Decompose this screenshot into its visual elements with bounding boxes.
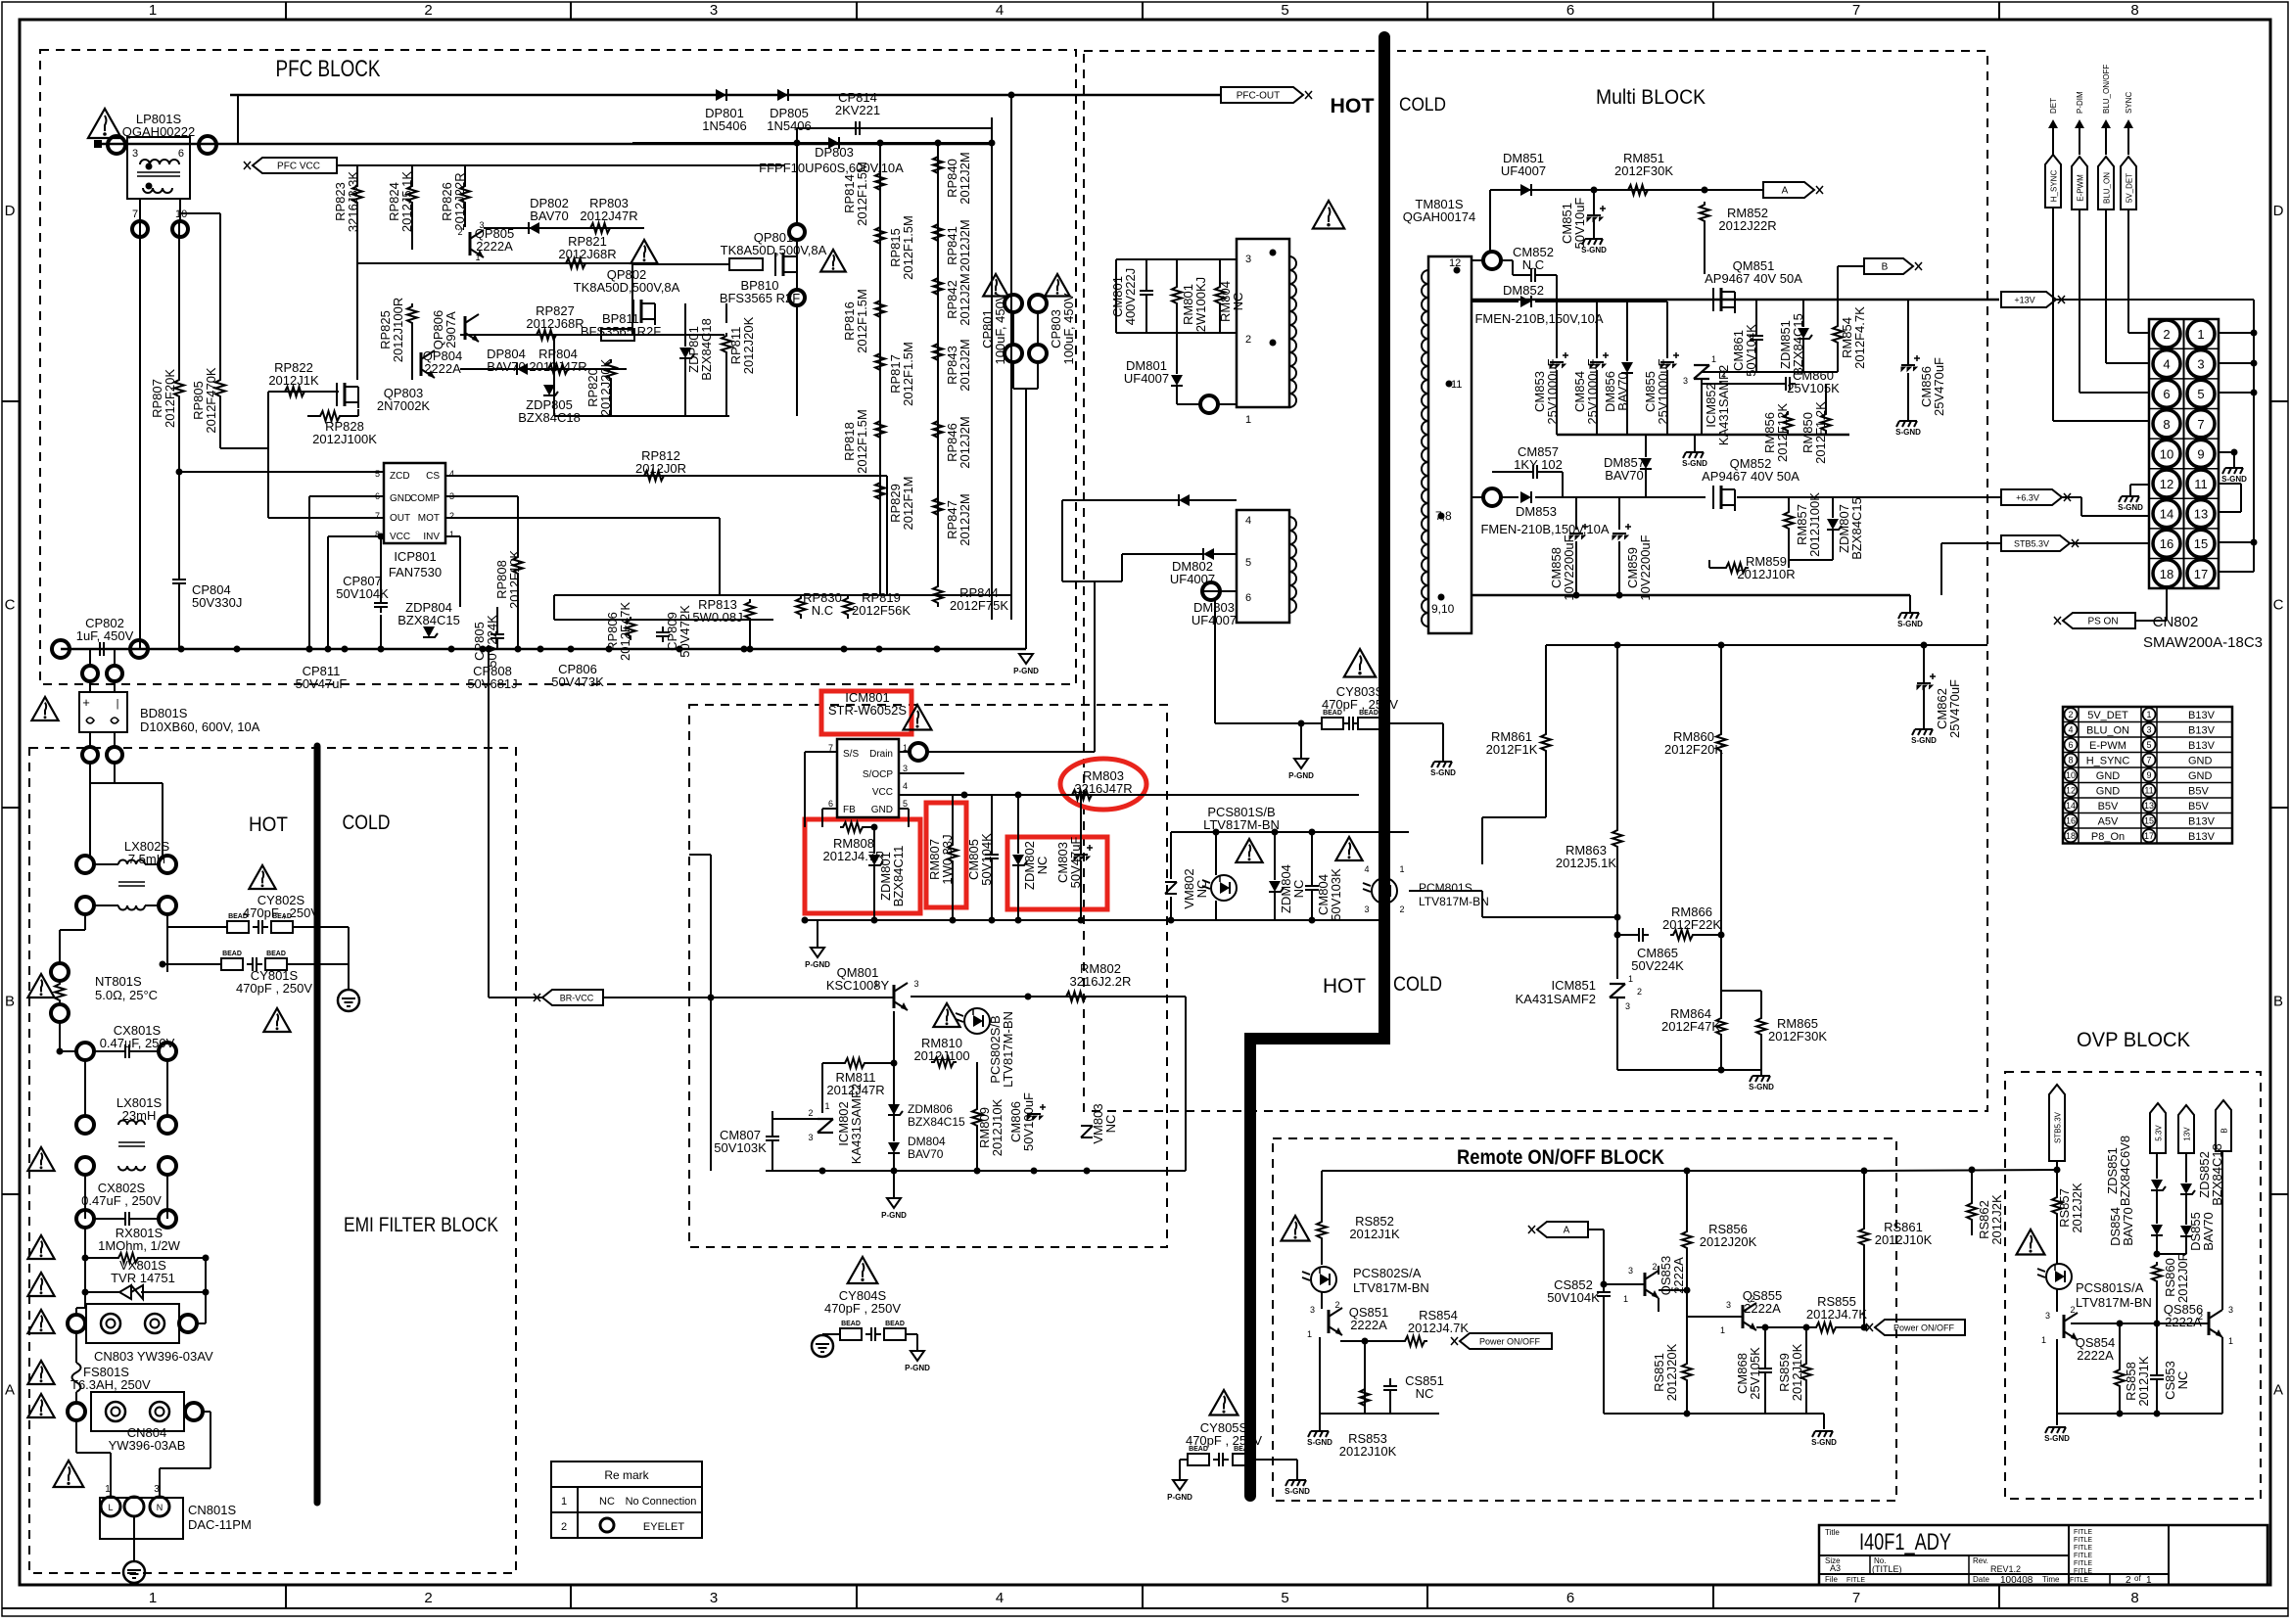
svg-text:COMP: COMP [410,493,440,504]
svg-text:BZX84C6V8: BZX84C6V8 [2118,1136,2132,1206]
svg-text:B13V: B13V [2188,710,2216,721]
svg-text:2012J100: 2012J100 [913,1048,969,1063]
svg-text:FITLE: FITLE [2074,1529,2092,1536]
svg-text:FFPF10UP60S,600V,10A: FFPF10UP60S,600V,10A [759,161,904,175]
svg-text:3: 3 [2197,357,2204,372]
svg-text:BZX84C15: BZX84C15 [397,613,460,627]
svg-text:8: 8 [2130,2,2138,19]
svg-text:4: 4 [903,781,908,791]
svg-text:1: 1 [149,2,157,19]
svg-text:4: 4 [996,2,1004,19]
svg-text:2012F1.5M: 2012F1.5M [901,215,915,280]
svg-text:100uF, 450V: 100uF, 450V [993,293,1007,364]
svg-text:2012J47R: 2012J47R [529,359,586,374]
svg-text:OVP BLOCK: OVP BLOCK [2077,1029,2190,1051]
svg-text:2: 2 [808,1108,813,1118]
svg-text:9: 9 [2146,770,2151,780]
svg-text:13: 13 [2194,507,2208,522]
svg-text:2012J10K: 2012J10K [1339,1444,1397,1459]
svg-text:BEAD: BEAD [1234,1446,1253,1453]
svg-text:YW396-03AB: YW396-03AB [109,1438,186,1453]
svg-text:S-GND: S-GND [2118,503,2143,512]
svg-text:ZDM806: ZDM806 [908,1102,953,1116]
svg-text:2012J10K: 2012J10K [990,1098,1005,1156]
svg-text:7: 7 [132,209,138,220]
svg-text:10: 10 [2066,770,2076,780]
svg-text:NC: NC [599,1496,615,1508]
svg-text:2222A: 2222A [476,239,513,254]
svg-text:7: 7 [2197,417,2204,432]
svg-text:Power ON/OFF: Power ON/OFF [1893,1323,1955,1333]
svg-text:REV1.2: REV1.2 [1990,1564,2021,1574]
svg-text:NC: NC [1291,880,1306,899]
svg-text:L: L [108,1503,113,1512]
svg-text:3: 3 [1364,905,1369,914]
svg-text:NC: NC [1035,857,1050,875]
svg-text:7: 7 [1852,1590,1860,1606]
svg-text:P-GND: P-GND [905,1364,930,1372]
svg-text:3: 3 [903,764,908,773]
svg-text:TVR 14751: TVR 14751 [111,1271,175,1285]
svg-text:2012J2K: 2012J2K [2070,1183,2084,1233]
svg-text:2012J10K: 2012J10K [1790,1343,1804,1401]
svg-text:LTV817M-BN: LTV817M-BN [1001,1011,1015,1088]
svg-text:LTV817M-BN: LTV817M-BN [1353,1280,1429,1295]
svg-text:FMEN-210B,150V,10A: FMEN-210B,150V,10A [1480,522,1609,536]
svg-text:100uF, 450V: 100uF, 450V [1061,293,1076,364]
svg-text:9: 9 [2197,446,2204,461]
svg-text:50V100uF: 50V100uF [1021,1092,1036,1151]
svg-text:PCS801S/A: PCS801S/A [2076,1280,2144,1295]
svg-text:13: 13 [2144,801,2154,811]
svg-text:BEAD: BEAD [841,1321,861,1327]
svg-text:9,10: 9,10 [1431,602,1455,616]
svg-text:E-PWM: E-PWM [2089,740,2126,752]
svg-text:3: 3 [1245,254,1251,265]
svg-text:FITLE: FITLE [2074,1545,2092,1552]
svg-text:CN801S: CN801S [188,1503,236,1517]
svg-text:LTV817M-BN: LTV817M-BN [2076,1295,2152,1310]
svg-text:3: 3 [710,2,718,19]
svg-text:3: 3 [1683,376,1688,386]
svg-text:P-DIM: P-DIM [2076,91,2084,114]
svg-text:CN803 YW396-03AV: CN803 YW396-03AV [94,1349,213,1364]
svg-text:2012J10K: 2012J10K [1875,1232,1933,1247]
svg-text:QGAH00222: QGAH00222 [122,124,195,139]
svg-text:6: 6 [2068,740,2073,750]
svg-text:2012J1K: 2012J1K [2136,1356,2151,1407]
svg-text:6: 6 [2163,387,2170,401]
svg-text:2012J47R: 2012J47R [580,209,637,223]
svg-text:C: C [5,597,16,614]
svg-text:B13V: B13V [2188,740,2216,752]
svg-text:5.0Ω, 25°C: 5.0Ω, 25°C [95,988,158,1002]
svg-text:8: 8 [2068,755,2073,765]
svg-text:S-GND: S-GND [1811,1438,1837,1447]
svg-text:B: B [2220,1128,2229,1133]
svg-text:5V_DET: 5V_DET [2126,173,2134,203]
svg-text:SMAW200A-18C3: SMAW200A-18C3 [2143,634,2263,651]
svg-text:10: 10 [2160,446,2173,461]
svg-text:14: 14 [2066,801,2076,811]
svg-text:4: 4 [2068,724,2073,734]
svg-text:P8_On: P8_On [2091,831,2125,843]
svg-text:2: 2 [424,2,432,19]
svg-text:2012F4.7K: 2012F4.7K [1852,306,1867,369]
svg-text:1: 1 [149,1590,157,1606]
svg-text:N.C: N.C [1522,257,1544,272]
svg-text:2012F1.5M: 2012F1.5M [855,162,869,226]
svg-text:STB5.3V: STB5.3V [2014,539,2049,549]
svg-text:S-GND: S-GND [1581,246,1607,255]
svg-text:1: 1 [561,1496,567,1508]
svg-text:25V1000uF: 25V1000uF [1656,358,1670,424]
svg-text:P-GND: P-GND [1288,771,1314,780]
svg-text:470pF , 250V: 470pF , 250V [236,981,312,996]
svg-text:BAV70: BAV70 [908,1147,944,1161]
svg-text:NT801S: NT801S [95,974,142,989]
svg-text:LTV817M-BN: LTV817M-BN [1419,895,1489,908]
svg-text:S-GND: S-GND [1895,428,1921,437]
svg-text:BEAD: BEAD [885,1321,905,1327]
svg-text:BAV70: BAV70 [487,359,526,374]
svg-text:2: 2 [424,1590,432,1606]
svg-text:PS ON: PS ON [2087,617,2118,627]
svg-text:BLU_ON: BLU_ON [2103,172,2112,204]
svg-text:25V105K: 25V105K [1787,381,1840,395]
svg-text:2: 2 [449,511,454,521]
svg-text:|: | [117,698,119,710]
svg-text:1: 1 [1399,864,1404,874]
svg-text:BLU_ON/OFF: BLU_ON/OFF [2102,65,2111,114]
svg-text:3: 3 [1628,1266,1633,1276]
svg-text:S-GND: S-GND [1897,620,1923,628]
svg-text:B5V: B5V [2098,801,2119,812]
svg-text:7: 7 [375,511,380,521]
svg-text:B: B [1882,262,1889,273]
svg-text:2012J100K: 2012J100K [1807,492,1822,557]
svg-text:S-GND: S-GND [1285,1487,1310,1496]
svg-text:BAV70: BAV70 [2201,1212,2216,1251]
svg-text:P-GND: P-GND [1167,1493,1192,1502]
svg-text:HOT: HOT [1323,975,1366,998]
svg-text:S/OCP: S/OCP [863,769,893,780]
svg-text:2012J22R: 2012J22R [1718,218,1776,233]
svg-text:QGAH00174: QGAH00174 [1403,209,1475,224]
svg-text:3216J2.2R: 3216J2.2R [1070,974,1132,989]
svg-text:4: 4 [996,1590,1004,1606]
svg-text:COLD: COLD [343,812,391,834]
svg-text:COLD: COLD [1393,973,1442,996]
svg-text:2012J10R: 2012J10R [1737,567,1795,581]
svg-text:2012J1K: 2012J1K [1349,1227,1400,1241]
svg-text:Time: Time [2042,1575,2060,1584]
svg-text:2907A: 2907A [444,311,458,348]
svg-text:COLD: COLD [1399,95,1446,116]
svg-text:5: 5 [2197,387,2204,401]
svg-text:12: 12 [2160,477,2173,491]
svg-text:S-GND: S-GND [2044,1434,2070,1443]
svg-text:P-GND: P-GND [805,960,830,969]
svg-text:15: 15 [2194,536,2208,551]
svg-text:2: 2 [1334,1300,1339,1310]
svg-text:2012J100K: 2012J100K [312,432,377,446]
svg-text:100408: 100408 [2000,1575,2033,1586]
svg-text:10V2200uF: 10V2200uF [1562,534,1576,600]
svg-text:BZX84C11: BZX84C11 [891,846,906,907]
svg-text:T6.3AH, 250V: T6.3AH, 250V [70,1377,151,1392]
svg-text:BEAD: BEAD [272,913,292,920]
svg-text:D: D [2273,203,2284,219]
svg-text:H_SYNC: H_SYNC [2086,755,2130,766]
svg-text:Date: Date [1973,1575,1989,1584]
svg-text:EYELET: EYELET [643,1521,684,1533]
svg-text:50V104K: 50V104K [336,586,389,601]
svg-text:18: 18 [2160,567,2173,581]
svg-text:B: B [5,994,15,1010]
svg-text:A3: A3 [1830,1563,1841,1573]
svg-text:No Connection: No Connection [626,1496,697,1508]
svg-text:E-PWM: E-PWM [2077,174,2085,202]
svg-text:5: 5 [1245,557,1251,569]
svg-text:UF4007: UF4007 [1124,371,1169,386]
svg-text:1: 1 [2146,710,2151,719]
svg-text:2012J68R: 2012J68R [558,247,616,261]
svg-text:GND: GND [871,805,893,815]
svg-text:11: 11 [2194,477,2208,491]
svg-text:Multi BLOCK: Multi BLOCK [1596,86,1706,109]
svg-text:FITLE: FITLE [2070,1577,2088,1584]
svg-text:5: 5 [375,469,380,479]
svg-text:2012J0R: 2012J0R [635,461,686,476]
svg-text:50V103K: 50V103K [1329,868,1343,921]
svg-text:S/S: S/S [843,749,859,760]
svg-text:TK8A50D,500V,8A: TK8A50D,500V,8A [574,280,680,295]
svg-text:S-GND: S-GND [1430,768,1456,777]
svg-text:N.C: N.C [812,603,833,618]
svg-text:3: 3 [808,1133,813,1142]
svg-text:16: 16 [2066,815,2076,825]
svg-text:2012F12K: 2012F12K [1775,403,1790,462]
svg-text:2012F47K: 2012F47K [618,602,632,661]
svg-text:25V1000uF: 25V1000uF [1585,358,1600,424]
svg-text:25V1000uF: 25V1000uF [1545,358,1560,424]
svg-text:2: 2 [457,227,462,237]
svg-text:GND: GND [2188,755,2213,766]
svg-text:2012F20K: 2012F20K [1664,742,1723,757]
svg-text:5: 5 [2146,740,2151,750]
svg-text:AP9467 40V 50A: AP9467 40V 50A [1702,469,1799,484]
svg-text:DM853: DM853 [1516,504,1557,519]
svg-text:BAV70: BAV70 [1605,468,1644,483]
svg-text:2: 2 [561,1521,567,1533]
svg-text:P-GND: P-GND [881,1211,907,1220]
svg-text:2012J20K: 2012J20K [1700,1234,1757,1249]
svg-text:FMEN-210B,150V,10A: FMEN-210B,150V,10A [1474,311,1603,326]
svg-text:BAV70: BAV70 [530,209,569,223]
svg-text:13V: 13V [2183,1127,2192,1141]
svg-text:50V47uF: 50V47uF [296,676,348,691]
svg-text:P-GND: P-GND [1013,667,1039,675]
svg-text:11: 11 [2144,785,2153,795]
svg-text:BAV70: BAV70 [2121,1207,2135,1246]
svg-text:1: 1 [2228,1336,2233,1346]
svg-text:3: 3 [1726,1300,1731,1310]
svg-text:2012F75K: 2012F75K [950,598,1008,613]
svg-text:1: 1 [1711,354,1716,364]
svg-text:6: 6 [1566,1590,1574,1606]
svg-text:1: 1 [2041,1335,2046,1345]
svg-text:2012F10K: 2012F10K [507,550,522,609]
svg-text:0.47uF , 250V: 0.47uF , 250V [81,1193,162,1208]
svg-text:Re mark: Re mark [604,1468,649,1482]
svg-text:2012J2M: 2012J2M [958,339,972,391]
svg-text:7: 7 [2146,755,2151,765]
svg-text:ICM851: ICM851 [1551,978,1596,993]
svg-text:D: D [5,203,16,219]
svg-text:A5V: A5V [2098,815,2119,827]
svg-text:2012F22K: 2012F22K [1662,917,1721,932]
svg-text:NC: NC [1103,1115,1118,1134]
svg-text:KA431SAMF2: KA431SAMF2 [849,1084,864,1164]
svg-text:2W100KJ: 2W100KJ [1193,277,1208,332]
svg-text:1uF, 450V: 1uF, 450V [76,628,134,643]
svg-text:INV: INV [423,532,440,542]
svg-text:STB5.3V: STB5.3V [2054,1111,2063,1143]
svg-text:2: 2 [2163,327,2170,342]
svg-text:BEAD: BEAD [266,951,286,957]
svg-text:2012J2M: 2012J2M [958,493,972,545]
svg-text:2012J2K: 2012J2K [1989,1194,2004,1245]
svg-text:3: 3 [132,148,138,160]
svg-text:2N7002K: 2N7002K [377,398,431,413]
svg-text:FB: FB [843,805,856,815]
svg-text:1: 1 [1628,974,1633,984]
svg-text:1: 1 [1720,1325,1725,1335]
svg-text:2012J4.7K: 2012J4.7K [1408,1321,1469,1335]
svg-text:PCM801S: PCM801S [1419,881,1472,895]
svg-text:BEAD: BEAD [1323,710,1342,717]
svg-text:18: 18 [2066,831,2076,841]
svg-text:3: 3 [479,220,484,230]
svg-text:4: 4 [1245,515,1251,527]
svg-text:2012F47K: 2012F47K [1661,1019,1720,1034]
svg-text:KA431SAMF2: KA431SAMF2 [1516,992,1596,1006]
svg-text:2: 2 [1245,334,1251,346]
svg-text:B5V: B5V [2188,785,2209,797]
svg-text:HOT: HOT [249,813,288,836]
svg-text:S-GND: S-GND [2221,475,2247,484]
svg-text:2KV221: 2KV221 [835,103,880,117]
svg-text:AP9467 40V 50A: AP9467 40V 50A [1705,271,1802,286]
svg-text:S-GND: S-GND [1307,1438,1332,1447]
svg-text:KSC1008Y: KSC1008Y [826,978,890,993]
svg-text:BZX84C15: BZX84C15 [908,1115,965,1129]
svg-text:LTV817M-BN: LTV817M-BN [1203,817,1280,832]
svg-text:2012J20K: 2012J20K [1664,1343,1679,1401]
svg-text:VCC: VCC [390,532,410,542]
svg-text:B13V: B13V [2188,815,2216,827]
svg-text:NC: NC [1416,1386,1434,1401]
svg-text:5: 5 [903,799,908,809]
svg-text:50V224K: 50V224K [1631,958,1684,973]
svg-text:B13V: B13V [2188,724,2216,736]
svg-text:2012J2M: 2012J2M [958,416,972,468]
svg-text:NC: NC [1231,293,1245,311]
svg-text:GND: GND [2188,770,2213,782]
svg-text:2222A: 2222A [2077,1348,2114,1363]
svg-text:GND: GND [2096,770,2121,782]
svg-text:4: 4 [2163,357,2170,372]
svg-text:Title: Title [1825,1528,1840,1537]
svg-text:17: 17 [2144,831,2154,841]
svg-text:BZX84C18: BZX84C18 [518,410,581,425]
svg-text:14: 14 [2160,507,2173,522]
svg-text:DET: DET [2049,98,2058,114]
svg-text:File: File [1825,1575,1838,1584]
svg-text:C: C [2273,597,2284,614]
svg-text:BFS3565 R2F: BFS3565 R2F [581,324,661,339]
svg-text:2012J20K: 2012J20K [741,316,756,374]
svg-text:2: 2 [2068,710,2073,719]
svg-text:BEAD: BEAD [1189,1446,1208,1453]
svg-text:400V222J: 400V222J [1123,268,1138,326]
svg-text:1: 1 [873,979,878,989]
svg-text:NC: NC [2175,1371,2190,1390]
svg-text:of: of [2134,1574,2141,1583]
svg-text:5.3V: 5.3V [2155,1125,2164,1141]
svg-text:2012F56K: 2012F56K [852,603,911,618]
svg-text:6: 6 [828,799,833,809]
svg-text:DM852: DM852 [1503,283,1544,298]
svg-text:8: 8 [2130,1590,2138,1606]
svg-text:3: 3 [710,1590,718,1606]
svg-text:6: 6 [178,148,184,160]
svg-text:1: 1 [1623,1294,1628,1304]
svg-text:2012F470K: 2012F470K [204,367,218,434]
svg-text:15: 15 [2144,815,2154,825]
svg-text:2012F1M: 2012F1M [901,477,915,531]
svg-text:3: 3 [2228,1305,2233,1315]
svg-text:2012J2M: 2012J2M [958,273,972,325]
svg-text:5: 5 [1281,2,1288,19]
svg-text:FAN7530: FAN7530 [389,565,442,580]
svg-text:VCC: VCC [872,787,893,798]
svg-text:1: 1 [449,530,454,539]
svg-text:16: 16 [2160,536,2173,551]
svg-text:1: 1 [1245,414,1251,426]
svg-text:7: 7 [1852,2,1860,19]
svg-text:Remote ON/OFF BLOCK: Remote ON/OFF BLOCK [1457,1146,1664,1169]
svg-text:2012F1.5M: 2012F1.5M [855,289,869,353]
svg-text:OUT: OUT [390,513,410,524]
svg-text:B13V: B13V [2188,831,2216,843]
svg-text:A: A [1782,186,1789,197]
svg-text:1: 1 [1307,1329,1312,1339]
svg-text:1: 1 [2197,327,2204,342]
svg-text:B5V: B5V [2188,801,2209,812]
svg-text:2012J4.7K: 2012J4.7K [1806,1307,1867,1322]
svg-text:Power ON/OFF: Power ON/OFF [1479,1337,1541,1347]
svg-text:+6.3V: +6.3V [2016,493,2039,503]
svg-text:2: 2 [2126,1575,2131,1586]
svg-text:3: 3 [1625,1001,1630,1011]
svg-text:S-GND: S-GND [1911,736,1937,745]
svg-text:2: 2 [1652,1262,1657,1272]
svg-text:4: 4 [449,469,454,479]
svg-text:1MOhm, 1/2W: 1MOhm, 1/2W [98,1238,181,1253]
svg-text:25V470uF: 25V470uF [1932,357,1946,416]
